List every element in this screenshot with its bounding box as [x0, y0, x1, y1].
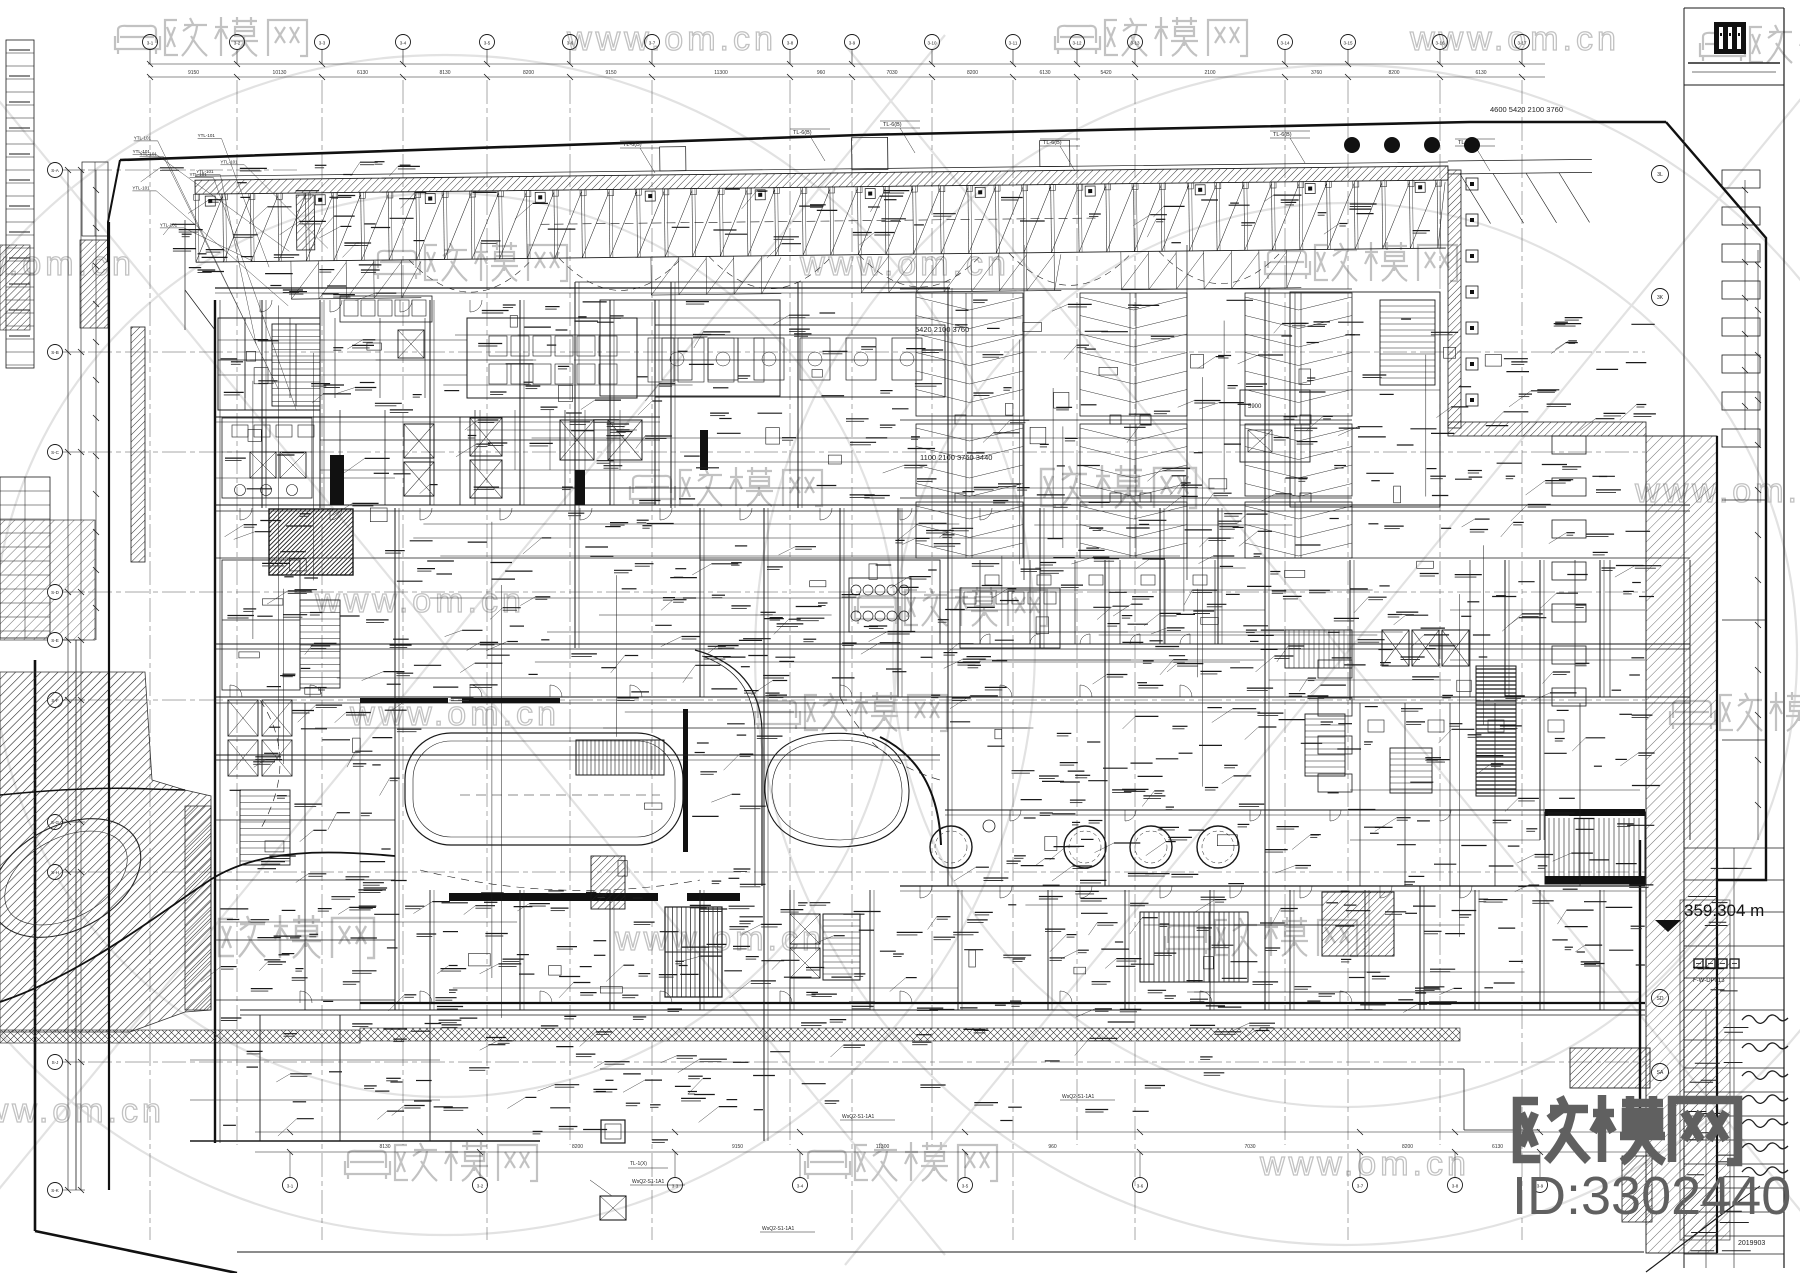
svg-text:7030: 7030 — [1244, 1144, 1255, 1150]
svg-text:S-J: S-J — [52, 1060, 59, 1065]
svg-text:TL-6(B): TL-6(B) — [623, 142, 642, 148]
svg-text:WsQ2-S1-1A1: WsQ2-S1-1A1 — [1062, 1094, 1094, 1100]
right wide hatch strip — [1646, 436, 1717, 1253]
left bottom partitions — [259, 1015, 261, 1141]
right wall columns upper — [1466, 178, 1478, 190]
site boundary right diagonal — [1666, 122, 1766, 880]
right retaining wall upper — [1448, 170, 1461, 428]
thick black bar — [449, 893, 658, 901]
top retaining wall hatch — [195, 166, 1448, 194]
svg-text:3-8: 3-8 — [1452, 1184, 1459, 1189]
bottom-right entrance stair — [1545, 812, 1645, 884]
svg-text:S-K: S-K — [51, 1188, 59, 1193]
stair left mid — [300, 600, 340, 688]
east walls — [1639, 840, 1641, 1143]
title block frame — [1683, 8, 1685, 1268]
tanks — [930, 826, 972, 868]
svg-text:960: 960 — [1048, 1144, 1057, 1150]
svg-text:6130: 6130 — [1492, 1144, 1503, 1150]
svg-text:9150: 9150 — [732, 1144, 743, 1150]
right rooms band2 — [1359, 703, 1361, 886]
right rooms near hatch — [1469, 560, 1471, 697]
main vertical partitions — [261, 300, 263, 508]
corridor wall B — [215, 643, 1690, 645]
top dimension band — [148, 63, 1545, 65]
svg-text:www.om.cn: www.om.cn — [566, 20, 777, 58]
svg-text:8200: 8200 — [572, 1144, 583, 1150]
interior horizontal pipes — [653, 631, 1403, 633]
vertical axis grid lines — [149, 80, 151, 1240]
svg-text:3-5: 3-5 — [484, 41, 491, 46]
svg-text:5420: 5420 — [1100, 70, 1111, 76]
svg-text:3-3: 3-3 — [319, 41, 326, 46]
lower boundary right — [600, 1068, 1464, 1070]
notch structures under boundary — [852, 137, 888, 169]
labels above boundary — [620, 147, 660, 149]
site bold vertical x109 — [108, 222, 110, 1190]
svg-text:7030: 7030 — [886, 70, 897, 76]
site boundary left — [108, 160, 120, 262]
car ramp island — [405, 733, 683, 845]
hatched boxes in strip — [1570, 1048, 1650, 1088]
scattered small rects — [869, 564, 877, 579]
small elevators upper — [398, 330, 424, 358]
svg-text:9150: 9150 — [188, 70, 199, 76]
svg-text:3-1: 3-1 — [147, 41, 154, 46]
small rooms left mid — [222, 560, 300, 690]
upper-left small rooms — [218, 359, 272, 361]
svg-text:YTL-101: YTL-101 — [134, 135, 152, 140]
svg-text:TL-6(B): TL-6(B) — [1273, 132, 1292, 138]
svg-text:S-C: S-C — [51, 450, 60, 455]
right top stalls — [1460, 174, 1491, 224]
room block right of parking — [1240, 390, 1310, 462]
svg-text:11300: 11300 — [876, 1144, 890, 1150]
stair right upper — [1380, 300, 1435, 385]
svg-text:ID:3302440: ID:3302440 — [1512, 1166, 1791, 1226]
top parking stalls — [196, 248, 1446, 262]
company name lines — [1688, 62, 1780, 64]
svg-text:3-7: 3-7 — [1357, 1184, 1364, 1189]
wall y755 left — [215, 754, 940, 756]
svg-text:YTL-101: YTL-101 — [196, 169, 214, 174]
svg-text:www.om.cn: www.om.cn — [1409, 20, 1620, 58]
site boundary bottom — [237, 1251, 1644, 1253]
four marker dots — [1344, 137, 1360, 153]
upper-left extra partitions — [244, 318, 246, 398]
central stair vertical treads — [665, 907, 722, 997]
site road curve upper — [0, 788, 185, 795]
curved corridor wall — [695, 650, 762, 886]
svg-text:3-4: 3-4 — [797, 1184, 804, 1189]
room grid upper — [339, 410, 341, 505]
thick wall x683 — [683, 709, 688, 852]
svg-text:6130: 6130 — [1039, 70, 1050, 76]
corridor wall C — [215, 696, 1690, 698]
left axis bubbles — [48, 163, 63, 178]
stair block D — [1140, 912, 1248, 982]
svg-text:3-16: 3-16 — [1435, 41, 1445, 46]
mid-right band rooms — [979, 560, 981, 644]
north upper line — [575, 281, 950, 283]
elevator bank — [404, 424, 434, 458]
site boundary west — [34, 660, 37, 1231]
ramp stair block — [576, 740, 664, 775]
left column rooms — [215, 759, 395, 761]
leader lines upper-left — [222, 139, 270, 268]
right stair F — [1476, 666, 1516, 796]
svg-text:8200: 8200 — [523, 70, 534, 76]
svg-text:11300: 11300 — [714, 70, 728, 76]
second stall row segments — [291, 298, 421, 299]
svg-text:3-9: 3-9 — [849, 41, 856, 46]
parking vertical pipes — [1023, 245, 1025, 580]
mid-right parking columns — [916, 293, 1023, 416]
machine room 2 — [600, 300, 780, 396]
svg-text:S-B: S-B — [51, 350, 59, 355]
site boundary top — [120, 122, 1666, 160]
left elevator cluster — [228, 700, 258, 736]
annotation noise — [1128, 304, 1142, 306]
svg-text:2100: 2100 — [1204, 70, 1215, 76]
pond — [0, 795, 161, 962]
svg-text:3-2: 3-2 — [234, 41, 241, 46]
upper mid room — [700, 560, 940, 644]
svg-text:4600 5420 2100 3760: 4600 5420 2100 3760 — [1490, 105, 1563, 114]
svg-text:2019903: 2019903 — [1738, 1240, 1765, 1247]
hatched box E — [1322, 892, 1394, 956]
solid dense block — [269, 509, 353, 575]
stair treads mid — [1285, 630, 1352, 668]
elevator pair bottom — [790, 914, 820, 944]
bottom dimension band — [255, 1131, 1660, 1133]
wall y560 — [215, 557, 1690, 559]
right retaining wall corner — [1448, 422, 1646, 436]
svg-text:3760: 3760 — [1311, 70, 1322, 76]
svg-text:TL-1(X): TL-1(X) — [630, 1161, 647, 1167]
svg-text:8200: 8200 — [1402, 1144, 1413, 1150]
wall y810 — [945, 809, 1645, 811]
bottom small pit — [601, 1120, 625, 1143]
svg-text:9150: 9150 — [605, 70, 616, 76]
circle grid box — [849, 578, 911, 632]
svg-text:S-D: S-D — [51, 590, 60, 595]
central blob — [765, 733, 909, 847]
svg-text:S-A: S-A — [51, 168, 59, 173]
drive lane arcs — [409, 258, 533, 292]
bottom room partitions — [429, 890, 431, 1010]
svg-text:3-6: 3-6 — [1137, 1184, 1144, 1189]
west wall — [214, 300, 216, 1143]
stair right mid — [1305, 714, 1345, 776]
svg-text:3-6: 3-6 — [567, 41, 574, 46]
stair upper-left — [272, 324, 320, 406]
interior vertical pipes — [1425, 355, 1427, 497]
svg-text:960: 960 — [817, 70, 826, 76]
svg-text:3-10: 3-10 — [927, 41, 937, 46]
left margin hatch patch2 — [0, 245, 30, 330]
big watermark oumowang — [1517, 1097, 1588, 1161]
door swings — [920, 886, 932, 898]
lobby dashed arcs — [420, 870, 700, 890]
right dim chain — [1744, 180, 1746, 430]
left margin hatch upper — [80, 240, 108, 328]
west retaining hatch band — [131, 327, 145, 562]
thick wall segs y699 — [360, 698, 448, 703]
left stair lower — [240, 790, 290, 865]
svg-text:www.om.cn: www.om.cn — [314, 582, 525, 620]
svg-text:3-13: 3-13 — [1130, 41, 1140, 46]
west basement wall hatch — [185, 806, 211, 1010]
svg-text:F-W-DP013: F-W-DP013 — [1693, 978, 1725, 984]
hatched box mid — [591, 856, 625, 909]
equipment row — [960, 588, 1060, 648]
diagonal leader bottom right — [1646, 1199, 1742, 1272]
svg-text:YTL-101: YTL-101 — [133, 149, 151, 154]
svg-text:WsQ2-S1-1A1: WsQ2-S1-1A1 — [762, 1226, 794, 1232]
svg-text:359.304 m: 359.304 m — [1684, 901, 1764, 920]
svg-text:1100 2100 3760 3440: 1100 2100 3760 3440 — [920, 453, 992, 462]
stair beside elevators — [823, 914, 860, 980]
signatures — [1742, 1015, 1788, 1023]
horizontal axis grid lines — [88, 351, 1645, 353]
svg-text:3-12: 3-12 — [1072, 41, 1082, 46]
table row room — [340, 296, 432, 322]
svg-text:3-7: 3-7 — [649, 41, 656, 46]
svg-text:8200: 8200 — [967, 70, 978, 76]
svg-text:www.om.cn: www.om.cn — [0, 1092, 165, 1130]
svg-text:TL-6(B): TL-6(B) — [1043, 140, 1062, 146]
south wall thick — [360, 1002, 1645, 1004]
top band sloped group — [193, 129, 1593, 300]
svg-text:WsQ2-S1-1A1: WsQ2-S1-1A1 — [632, 1179, 664, 1185]
svg-text:3-15: 3-15 — [1343, 41, 1353, 46]
bottom note texts — [630, 1184, 685, 1186]
bottom hatch strips — [360, 1028, 1460, 1041]
svg-text:5420 2100 3760: 5420 2100 3760 — [915, 325, 969, 334]
svg-text:8200: 8200 — [1388, 70, 1399, 76]
svg-text:S-E: S-E — [51, 638, 59, 643]
pump row room — [655, 325, 945, 397]
earth hatch region — [0, 672, 211, 1032]
svg-text:10130: 10130 — [273, 70, 287, 76]
bottom wall left block — [190, 1140, 540, 1142]
svg-text:3-5: 3-5 — [962, 1184, 969, 1189]
right axis bubbles — [1652, 166, 1669, 183]
svg-text:WsQ2-S1-1A1: WsQ2-S1-1A1 — [842, 1114, 874, 1120]
svg-text:3-14: 3-14 — [1280, 41, 1290, 46]
svg-text:3-3: 3-3 — [672, 1184, 679, 1189]
left small tables — [0, 477, 50, 638]
svg-text:3-11: 3-11 — [1009, 41, 1018, 46]
interior horizontal pipes right — [1269, 679, 1451, 681]
svg-text:3-4: 3-4 — [400, 41, 407, 46]
svg-text:3-8: 3-8 — [787, 41, 794, 46]
south wall upper rooms — [900, 885, 1645, 887]
svg-text:8130: 8130 — [379, 1144, 390, 1150]
svg-text:3-1: 3-1 — [287, 1184, 294, 1189]
south wall mid — [240, 1009, 1645, 1011]
right dim chain outer — [1757, 250, 1759, 840]
far right stall rects — [1722, 170, 1760, 188]
svg-text:6130: 6130 — [357, 70, 368, 76]
svg-text:6130: 6130 — [1475, 70, 1486, 76]
upper-left corridor wall — [215, 416, 660, 418]
parking lane lines — [900, 288, 1352, 290]
svg-text:YTL-101: YTL-101 — [132, 185, 150, 190]
black shaft rects — [330, 455, 344, 505]
svg-text:YTL-101: YTL-101 — [198, 133, 216, 138]
svg-text:3-17: 3-17 — [1517, 41, 1527, 46]
room right of parking — [1290, 292, 1440, 507]
company logo — [1714, 22, 1746, 54]
watermark lattice — [115, 26, 160, 54]
top axis bubbles — [143, 35, 158, 50]
svg-text:3-2: 3-2 — [477, 1184, 484, 1189]
svg-text:TL-6(B): TL-6(B) — [793, 130, 812, 136]
left legend strip — [6, 40, 34, 368]
svg-text:TL-6(B): TL-6(B) — [883, 122, 902, 128]
doors y810 — [1010, 810, 1021, 821]
svg-text:3K: 3K — [1657, 295, 1664, 301]
title table — [1684, 847, 1784, 849]
svg-text:8130: 8130 — [439, 70, 450, 76]
sump pit bottom strip — [600, 1196, 626, 1220]
upper-left room block — [218, 318, 320, 410]
svg-text:3L: 3L — [1657, 172, 1663, 178]
elevator cluster right — [1382, 630, 1409, 666]
north wall — [215, 287, 950, 289]
site road curve lower — [0, 852, 395, 1002]
svg-text:www.om.cn: www.om.cn — [1259, 1145, 1470, 1183]
svg-text:YTL-101: YTL-101 — [220, 159, 238, 164]
upper-left fixtures — [232, 425, 248, 437]
corridor wall A — [215, 504, 1690, 506]
left dimension lines — [67, 170, 69, 1190]
machine room — [467, 318, 637, 398]
parking shaft hatch — [296, 195, 315, 250]
blob right thick arc — [880, 737, 941, 845]
right stall rects mid — [1552, 436, 1586, 454]
